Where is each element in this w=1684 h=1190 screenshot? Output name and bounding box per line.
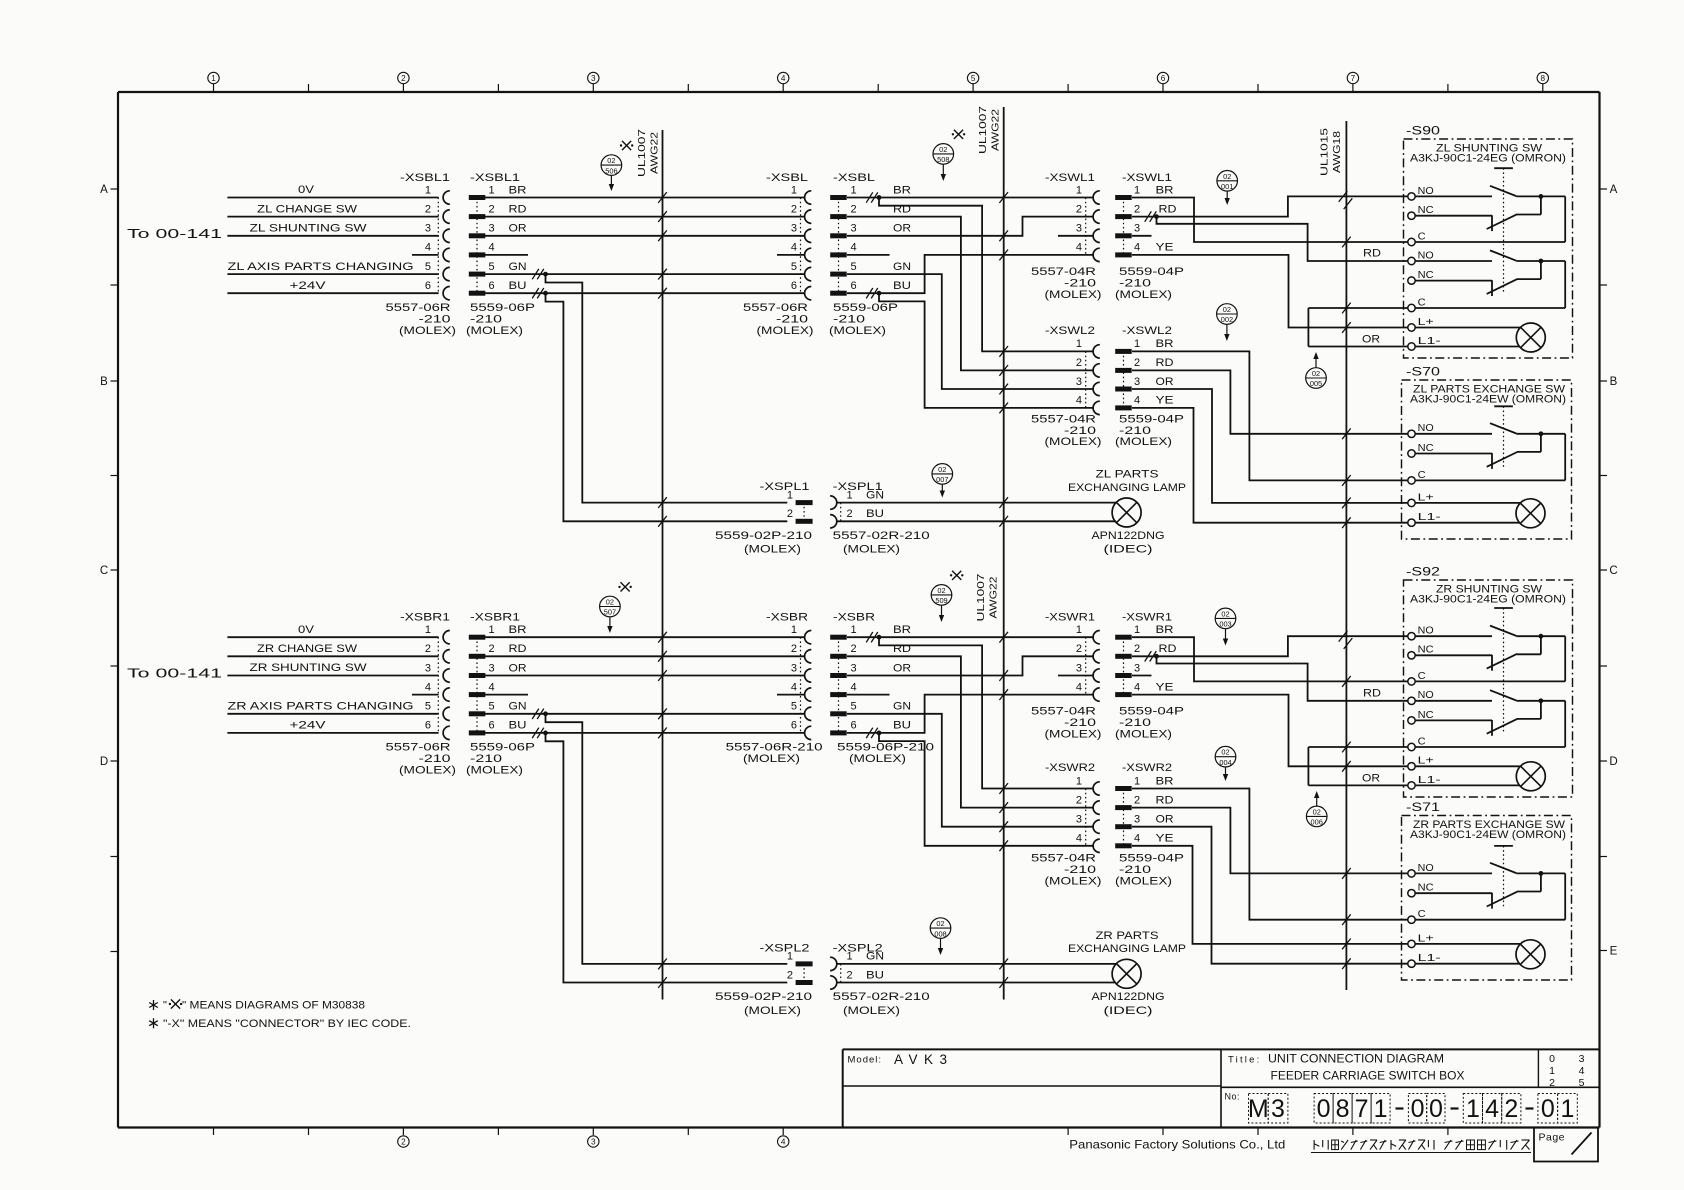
svg-text:1: 1	[489, 624, 495, 636]
svg-text:ZR CHANGE SW: ZR CHANGE SW	[257, 643, 358, 655]
net reference 02/004	[1215, 746, 1236, 767]
svg-text:L+: L+	[1418, 317, 1434, 328]
svg-text:2: 2	[847, 969, 853, 981]
wire RD to S-box2 NO	[1132, 370, 1408, 433]
svg-text:2: 2	[787, 969, 793, 981]
wire BU cable2 main to XSW_1 pin4	[866, 728, 873, 738]
svg-text:6: 6	[1161, 74, 1166, 83]
svg-text:C: C	[1418, 470, 1426, 481]
grid minor tick top	[1257, 84, 1259, 92]
lamp ZR PARTS EXCHANGING LAMP APN122DNG	[837, 963, 1116, 965]
svg-text:8: 8	[1541, 74, 1546, 83]
svg-text:7: 7	[1351, 74, 1356, 83]
switch actuator	[1494, 607, 1513, 609]
grid minor tick top	[1067, 84, 1069, 92]
svg-text:ZL PARTS: ZL PARTS	[1096, 469, 1159, 481]
svg-text:3: 3	[489, 662, 495, 674]
svg-text:C: C	[1418, 231, 1426, 242]
svg-text:OR: OR	[893, 223, 911, 235]
wire pin4 stub	[847, 694, 890, 696]
svg-text:5: 5	[791, 701, 797, 713]
svg-text:(MOLEX): (MOLEX)	[843, 544, 900, 556]
net reference 02/001	[1217, 171, 1238, 192]
svg-text:5557-06R: 5557-06R	[743, 302, 808, 314]
svg-text:02: 02	[607, 156, 615, 165]
svg-text:1: 1	[791, 184, 797, 196]
svg-text:007: 007	[936, 475, 948, 484]
svg-text:L+: L+	[1418, 933, 1434, 944]
svg-text:4: 4	[1134, 395, 1140, 407]
svg-text:02: 02	[1223, 305, 1231, 314]
svg-text:002: 002	[1221, 315, 1233, 324]
svg-text:3: 3	[1076, 376, 1082, 388]
svg-text:-XSWR1: -XSWR1	[1045, 612, 1095, 624]
switch actuator	[1494, 167, 1513, 169]
grid minor tick left	[111, 475, 119, 477]
svg-text:B: B	[1610, 376, 1618, 388]
svg-text:(MOLEX): (MOLEX)	[849, 753, 906, 765]
net reference 02/006	[1306, 806, 1327, 827]
grid tick bottom	[1352, 1128, 1354, 1136]
svg-text:B: B	[100, 376, 108, 388]
wire input 0V	[227, 197, 438, 199]
svg-text:7: 7	[1355, 1095, 1369, 1123]
grid tick bottom	[1447, 1128, 1449, 1136]
junction GN branch (twisted pair mark)	[532, 269, 539, 279]
wire input ZL AXIS PARTS CHANGING	[227, 273, 438, 275]
grid column label 2 bottom	[398, 1136, 409, 1147]
grid row label A right	[1600, 188, 1608, 190]
svg-text:BR: BR	[1156, 338, 1174, 350]
lamp in -S92	[1516, 762, 1545, 791]
svg-text:3: 3	[791, 223, 797, 235]
svg-text:GN: GN	[866, 489, 884, 501]
wire input ZR SHUNTING SW	[227, 675, 438, 677]
wire OR cable2 to XSW_1 pin2	[847, 217, 1093, 236]
grid row label D left	[111, 760, 119, 762]
svg-text:L+: L+	[1418, 492, 1434, 503]
border frame	[118, 91, 1600, 93]
svg-text:0: 0	[1541, 1095, 1555, 1123]
svg-text:(MOLEX): (MOLEX)	[1115, 289, 1172, 301]
svg-text:1: 1	[791, 624, 797, 636]
svg-text:1: 1	[1076, 338, 1082, 350]
svg-text:3: 3	[1134, 814, 1140, 826]
svg-text:506: 506	[605, 166, 617, 175]
net reference 02/008	[930, 918, 951, 939]
svg-text:4: 4	[489, 681, 495, 693]
svg-text:4: 4	[1134, 681, 1140, 693]
svg-text:Panasonic Factory Solutions Co: Panasonic Factory Solutions Co., Ltd	[1069, 1138, 1285, 1152]
svg-text:5557-04R: 5557-04R	[1031, 413, 1096, 425]
svg-text:BU: BU	[893, 280, 911, 292]
svg-text:A: A	[100, 184, 108, 196]
switch terminals	[1408, 430, 1415, 437]
svg-text:3: 3	[425, 662, 431, 674]
wire GN cable2 to XSW_2 pin3	[847, 714, 1093, 827]
svg-text:3: 3	[1076, 223, 1082, 235]
wire BR cable1	[485, 197, 805, 199]
svg-text:0: 0	[1429, 1095, 1443, 1123]
wire input ZR AXIS PARTS CHANGING	[227, 713, 438, 715]
svg-text:1: 1	[787, 489, 793, 501]
grid row label B left	[111, 380, 119, 382]
svg-text:5557-02R-210: 5557-02R-210	[833, 530, 930, 542]
svg-text:BR: BR	[1156, 775, 1174, 787]
svg-text:To 00-141: To 00-141	[127, 227, 222, 241]
svg-text:C: C	[1418, 736, 1426, 747]
net reference 02/509	[931, 585, 952, 606]
svg-text:AWG18: AWG18	[1331, 131, 1343, 173]
svg-text:5: 5	[425, 261, 431, 273]
grid tick bottom	[687, 1128, 689, 1136]
wire RD cable1	[485, 655, 805, 657]
svg-text:(MOLEX): (MOLEX)	[744, 1005, 801, 1017]
svg-text:-XSPL1: -XSPL1	[760, 481, 810, 493]
svg-text:UL1007: UL1007	[636, 129, 648, 177]
svg-text:003: 003	[1219, 620, 1231, 629]
wire input ZL SHUNTING SW	[227, 235, 438, 237]
svg-text:1: 1	[425, 184, 431, 196]
svg-text:-XSBR: -XSBR	[766, 612, 808, 624]
svg-text:2: 2	[1076, 203, 1082, 215]
svg-text:NC: NC	[1418, 645, 1434, 656]
svg-text:OR: OR	[509, 223, 527, 235]
svg-text:3: 3	[791, 662, 797, 674]
svg-text:4: 4	[1076, 681, 1082, 693]
svg-text:02: 02	[938, 465, 946, 474]
svg-text:2: 2	[425, 203, 431, 215]
switch pole	[1415, 433, 1492, 435]
svg-text:5559-04P: 5559-04P	[1119, 706, 1184, 718]
svg-text:BR: BR	[1156, 624, 1174, 636]
svg-text:5557-06R-210: 5557-06R-210	[726, 742, 823, 754]
page cell	[1534, 1128, 1598, 1162]
svg-text:Page: Page	[1539, 1131, 1566, 1143]
svg-text:UL1015: UL1015	[1319, 128, 1331, 176]
svg-text:2: 2	[847, 508, 853, 520]
net reference 02/002	[1217, 304, 1238, 325]
svg-text:RD: RD	[509, 643, 527, 655]
junction GN branch (twisted pair mark)	[532, 709, 539, 719]
svg-text:NC: NC	[1418, 710, 1434, 721]
svg-text:D: D	[1609, 756, 1617, 768]
svg-text:006: 006	[1311, 818, 1323, 827]
svg-text:AVK3: AVK3	[894, 1052, 954, 1067]
svg-text:2: 2	[1134, 643, 1140, 655]
switch terminals	[1408, 193, 1415, 200]
svg-text:": "	[163, 1000, 167, 1012]
svg-text:1: 1	[1549, 1065, 1555, 1077]
svg-text:4: 4	[1076, 833, 1082, 845]
wire pin4 stub	[485, 254, 528, 256]
svg-text:2: 2	[489, 643, 495, 655]
svg-text:4: 4	[791, 681, 797, 693]
wire input 0V	[227, 636, 438, 638]
svg-text:2: 2	[489, 203, 495, 215]
svg-text:02: 02	[1221, 748, 1229, 757]
wire YE to S-box L+	[1132, 255, 1408, 328]
svg-text:5: 5	[1579, 1077, 1585, 1089]
svg-text:AWG22: AWG22	[649, 132, 661, 174]
company name (Japanese)	[1313, 1140, 1315, 1150]
svg-text:(MOLEX): (MOLEX)	[1045, 289, 1102, 301]
wire pin4 stub (unused)	[412, 694, 439, 696]
wire input +24V	[227, 292, 438, 294]
svg-text:2: 2	[787, 508, 793, 520]
svg-text:5559-04P: 5559-04P	[1119, 266, 1184, 278]
svg-text:3: 3	[1579, 1053, 1585, 1065]
svg-text:2: 2	[851, 203, 857, 215]
wire BU cable2 main to XSW_1 pin4	[866, 288, 873, 298]
wire OR tie C(pole2) to L1-	[1307, 747, 1309, 785]
grid minor tick left	[111, 856, 119, 858]
wire pin4 stub	[777, 694, 805, 696]
grid minor tick top	[308, 84, 310, 92]
svg-text:-S71: -S71	[1406, 802, 1440, 814]
svg-text:(MOLEX): (MOLEX)	[744, 544, 801, 556]
svg-text:-S90: -S90	[1406, 126, 1440, 138]
grid tick bottom	[308, 1128, 310, 1136]
svg-text:(MOLEX): (MOLEX)	[1045, 875, 1102, 887]
grid column label 1 top	[213, 84, 215, 93]
svg-text:Title:: Title:	[1228, 1054, 1261, 1065]
svg-text:BU: BU	[866, 508, 884, 520]
svg-text:008: 008	[934, 929, 946, 938]
switch pole 1	[1415, 195, 1492, 197]
svg-text:-210: -210	[1064, 717, 1096, 729]
svg-text:2: 2	[1076, 794, 1082, 806]
svg-text:EXCHANGING LAMP: EXCHANGING LAMP	[1068, 943, 1186, 955]
grid minor tick right	[1600, 856, 1608, 858]
wire OR to S-box2 L+	[1132, 389, 1408, 503]
svg-text:NC: NC	[1418, 883, 1434, 894]
wire pin3 stub	[1132, 235, 1152, 237]
svg-text:6: 6	[791, 280, 797, 292]
grid tick bottom	[497, 1128, 499, 1136]
svg-text:AWG22: AWG22	[990, 109, 1002, 151]
svg-text:4: 4	[1579, 1065, 1585, 1077]
svg-text:-210: -210	[419, 313, 451, 325]
svg-text:OR: OR	[1156, 814, 1174, 826]
svg-text:(MOLEX): (MOLEX)	[1115, 729, 1172, 741]
svg-text:-XSWR1: -XSWR1	[1122, 612, 1172, 624]
svg-text:509: 509	[935, 596, 947, 605]
svg-text:RD: RD	[509, 203, 527, 215]
svg-text:-XSBL: -XSBL	[833, 172, 875, 184]
svg-text:02: 02	[1223, 172, 1231, 181]
svg-text:-XSPL2: -XSPL2	[760, 942, 810, 954]
junction BU branch to XSW_2 pin4	[879, 293, 1093, 408]
svg-text:02: 02	[1313, 807, 1321, 816]
svg-text:-210: -210	[1119, 717, 1151, 729]
wire RD branch to S-box NO (pole2)	[1157, 656, 1408, 701]
svg-text:NO: NO	[1418, 690, 1434, 701]
grid tick bottom	[213, 1128, 215, 1136]
svg-text:6: 6	[851, 720, 857, 732]
switch terminals	[1408, 870, 1415, 877]
svg-text:"-X" MEANS "CONNECTOR" BY IEC: "-X" MEANS "CONNECTOR" BY IEC CODE.	[163, 1018, 411, 1030]
svg-text:-XSWL1: -XSWL1	[1045, 172, 1095, 184]
grid minor tick top	[687, 84, 689, 92]
svg-text:4: 4	[1076, 395, 1082, 407]
svg-text:A3KJ-90C1-24EW (OMRON): A3KJ-90C1-24EW (OMRON)	[1410, 394, 1566, 406]
svg-text:To 00-141: To 00-141	[127, 667, 222, 681]
svg-text:3: 3	[591, 1138, 596, 1147]
svg-text:0V: 0V	[298, 184, 315, 196]
svg-text:(MOLEX): (MOLEX)	[399, 325, 456, 337]
svg-text:RD: RD	[1159, 203, 1177, 215]
switch pole 1	[1415, 635, 1492, 637]
svg-text:1: 1	[1466, 1095, 1480, 1123]
svg-text:L+: L+	[1418, 756, 1434, 767]
grid row label B right	[1600, 380, 1608, 382]
svg-text:5: 5	[851, 701, 857, 713]
svg-text:2: 2	[1134, 203, 1140, 215]
svg-text:2: 2	[1549, 1077, 1555, 1089]
cable bus UL1015 AWG18	[1345, 121, 1347, 990]
svg-text:-210: -210	[1064, 277, 1096, 289]
svg-text:6: 6	[425, 280, 431, 292]
svg-text:5559-06P-210: 5559-06P-210	[837, 742, 934, 754]
svg-text:GN: GN	[509, 261, 527, 273]
svg-text:8: 8	[1336, 1095, 1350, 1123]
svg-text:BR: BR	[893, 624, 911, 636]
svg-text:2: 2	[1076, 643, 1082, 655]
grid row label D right	[1600, 760, 1608, 762]
svg-text:1: 1	[211, 74, 216, 83]
grid minor tick top	[497, 84, 499, 92]
svg-text:APN122DNG: APN122DNG	[1092, 991, 1165, 1003]
svg-text:0: 0	[1317, 1095, 1331, 1123]
grid row label C left	[111, 569, 119, 571]
lamp ZL PARTS EXCHANGING LAMP APN122DNG	[837, 502, 1116, 504]
wire pin3 stub	[1058, 235, 1093, 237]
junction BU branch (twisted pair mark)	[532, 728, 539, 738]
svg-text:NO: NO	[1418, 626, 1434, 637]
svg-text:6: 6	[489, 720, 495, 732]
svg-text:RD: RD	[1156, 357, 1174, 369]
svg-text:-210: -210	[419, 753, 451, 765]
svg-text:5557-06R: 5557-06R	[386, 302, 451, 314]
grid minor tick right	[1600, 665, 1608, 667]
svg-text:(MOLEX): (MOLEX)	[829, 325, 886, 337]
svg-text:UL1007: UL1007	[977, 106, 989, 154]
grid column label 8 top	[1542, 84, 1544, 93]
svg-text:YE: YE	[1156, 681, 1174, 693]
svg-text:RD: RD	[1363, 248, 1381, 260]
svg-text:AWG22: AWG22	[988, 576, 1000, 618]
svg-text:OR: OR	[509, 662, 527, 674]
svg-text:3: 3	[591, 74, 596, 83]
net reference 02/005	[1306, 368, 1327, 389]
wire OR to S-box2 L1-	[1132, 827, 1408, 964]
wire RD branch to S-box NO (pole2)	[1157, 217, 1408, 261]
svg-text:5559-02P-210: 5559-02P-210	[715, 991, 812, 1003]
svg-text:(MOLEX): (MOLEX)	[843, 1005, 900, 1017]
svg-text:-XSWL2: -XSWL2	[1045, 325, 1095, 337]
svg-text:507: 507	[604, 608, 616, 617]
svg-text:1: 1	[1134, 184, 1140, 196]
svg-text:1: 1	[1134, 624, 1140, 636]
svg-text:-XSBL1: -XSBL1	[400, 172, 450, 184]
svg-text:1: 1	[851, 624, 857, 636]
svg-text:6: 6	[791, 720, 797, 732]
svg-text:1: 1	[847, 951, 853, 963]
svg-text:1: 1	[489, 184, 495, 196]
svg-text:508: 508	[937, 155, 949, 164]
svg-text:-XSWL1: -XSWL1	[1122, 172, 1172, 184]
wire pin4 stub (unused)	[412, 254, 439, 256]
grid tick bottom	[402, 1128, 404, 1136]
svg-text:4: 4	[781, 74, 786, 83]
svg-text:6: 6	[851, 280, 857, 292]
wire RD cable1	[485, 216, 805, 218]
svg-text:2: 2	[1504, 1095, 1518, 1123]
grid minor tick left	[111, 951, 119, 953]
junction BR branch to XSW_2 pin1	[866, 192, 873, 202]
cable bus UL1007 AWG22 (right)	[1003, 107, 1005, 1000]
svg-text:2: 2	[791, 203, 797, 215]
svg-text:APN122DNG: APN122DNG	[1092, 530, 1165, 542]
svg-text:-XSBR: -XSBR	[833, 612, 875, 624]
junction BU branch to XSW_2 pin4	[879, 733, 1093, 846]
svg-text:BR: BR	[509, 184, 527, 196]
svg-text:C: C	[100, 565, 108, 577]
svg-text:0: 0	[1549, 1053, 1555, 1065]
svg-text:(MOLEX): (MOLEX)	[743, 753, 800, 765]
svg-text:L1-: L1-	[1418, 512, 1441, 523]
svg-text:4: 4	[1134, 242, 1140, 254]
svg-text:5: 5	[851, 261, 857, 273]
wire GN cable1	[485, 273, 805, 275]
svg-text:BR: BR	[1156, 184, 1174, 196]
grid column label 2 top	[402, 84, 404, 93]
svg-text:004: 004	[1219, 758, 1231, 767]
wire pin4 stub	[777, 254, 805, 256]
svg-text:BR: BR	[509, 624, 527, 636]
svg-text:02: 02	[1221, 609, 1229, 618]
title block frame	[843, 1048, 1600, 1050]
lamp in -S71	[1516, 940, 1545, 969]
svg-text:005: 005	[1310, 379, 1322, 388]
svg-text:5559-06P: 5559-06P	[470, 302, 535, 314]
svg-text:OR: OR	[1362, 772, 1380, 784]
svg-text:5559-02P-210: 5559-02P-210	[715, 530, 812, 542]
svg-text:-210: -210	[1119, 277, 1151, 289]
switch terminals	[1408, 633, 1415, 640]
svg-text:5559-06P: 5559-06P	[833, 302, 898, 314]
note: connector code legend	[153, 1018, 155, 1028]
svg-text:A: A	[1610, 184, 1618, 196]
svg-text:4: 4	[851, 242, 857, 254]
svg-text:-210: -210	[1119, 425, 1151, 437]
wire YE to S-box L+	[1132, 695, 1408, 767]
grid column label 3 bottom	[588, 1136, 599, 1147]
wire OR cable1	[485, 235, 805, 237]
svg-text:-210: -210	[776, 313, 808, 325]
svg-text:C: C	[1418, 671, 1426, 682]
wire YE to S-box2 L1-	[1132, 408, 1408, 523]
grid tick bottom	[782, 1128, 784, 1136]
svg-text:2: 2	[1134, 794, 1140, 806]
svg-text:4: 4	[1134, 833, 1140, 845]
svg-text:5: 5	[971, 74, 976, 83]
svg-text:C: C	[1418, 909, 1426, 920]
svg-text:-S92: -S92	[1406, 567, 1440, 579]
svg-text:3: 3	[489, 223, 495, 235]
svg-text:(MOLEX): (MOLEX)	[1115, 875, 1172, 887]
